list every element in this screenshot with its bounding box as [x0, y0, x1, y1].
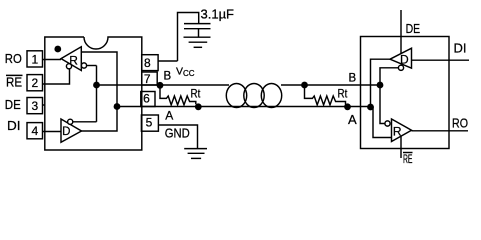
pin 7 box — [142, 72, 158, 85]
driver bubble (right) — [398, 65, 403, 70]
wire A to R lower input (right) — [371, 107, 392, 138]
twisted pair loop 3 — [261, 84, 281, 108]
wire B to D bubble (right) — [380, 68, 398, 85]
receiver input bubble (right) — [385, 121, 390, 126]
node A inside IC — [114, 103, 121, 110]
svg-text:DE: DE — [406, 21, 421, 36]
node B (right block) — [377, 82, 384, 89]
svg-text:Rt: Rt — [191, 89, 201, 101]
pin-1 marker dot — [54, 46, 61, 53]
receiver input bubble — [81, 63, 86, 68]
node A (right Rt) — [344, 103, 351, 110]
wire pin8 to Vcc riser — [158, 60, 177, 62]
node A (right block) — [367, 104, 374, 111]
wire D output to A (right) — [371, 59, 391, 107]
wire B vertical inside IC — [96, 66, 98, 122]
wire RO line — [412, 130, 469, 132]
wire DE (right) — [400, 10, 402, 64]
svg-text:A: A — [348, 112, 357, 127]
svg-text:DE: DE — [5, 98, 21, 112]
svg-text:RE: RE — [6, 76, 22, 90]
svg-text:7: 7 — [144, 72, 151, 86]
IC U1 body with notch — [45, 37, 142, 150]
wire RE (right) — [400, 136, 402, 158]
node B (right Rt) — [301, 82, 308, 89]
transceiver U2 body — [361, 37, 450, 149]
wire capacitor to ground — [198, 29, 200, 38]
node B (left) — [157, 82, 164, 89]
svg-text:2: 2 — [31, 76, 38, 90]
pin 6 box — [141, 92, 155, 107]
wire A line — [117, 106, 371, 108]
ground (top) — [184, 36, 211, 38]
wire D bubble to B — [73, 121, 97, 123]
node B inside IC — [93, 82, 100, 89]
svg-text:6: 6 — [143, 92, 150, 106]
wire DI line — [412, 59, 470, 61]
capacitor C1 3.1uF — [184, 23, 211, 25]
pin 3 box — [27, 98, 43, 114]
svg-text:8: 8 — [144, 56, 151, 70]
svg-text:3: 3 — [31, 99, 38, 113]
svg-text:D: D — [62, 126, 70, 138]
driver D (left IC) — [61, 119, 82, 142]
wire pin5 to ground — [158, 125, 197, 149]
svg-text:4: 4 — [31, 124, 38, 138]
svg-text:Rt: Rt — [338, 89, 348, 101]
svg-text:RO: RO — [452, 116, 468, 131]
svg-text:DI: DI — [7, 119, 21, 133]
wire B line right of loops — [281, 84, 380, 86]
ground (bottom left) — [184, 148, 207, 150]
pin 4 box — [27, 123, 43, 139]
wire B down to R bubble (right) — [380, 85, 385, 124]
pin 8 box — [142, 55, 158, 71]
wire pin1 to receiver output — [43, 59, 62, 61]
svg-text:GND: GND — [165, 126, 190, 141]
svg-text:RE: RE — [403, 154, 413, 166]
pin 1 box — [27, 51, 43, 67]
resistor Rt (right) — [305, 85, 346, 105]
resistor Rt (left) — [160, 85, 196, 105]
wire pin3 DE path — [43, 104, 46, 106]
driver inverted output bubble — [68, 119, 73, 124]
driver D (right) — [390, 48, 412, 68]
svg-text:3.1µF: 3.1µF — [201, 7, 235, 22]
svg-text:RO: RO — [5, 52, 22, 66]
svg-text:D: D — [400, 52, 409, 66]
wire pin2 to RE enable — [43, 69, 70, 84]
svg-text:B: B — [349, 72, 357, 84]
wire Vcc riser to capacitor — [178, 13, 199, 62]
receiver R (right) — [392, 119, 412, 142]
wire pin4 to driver input — [43, 131, 62, 133]
svg-text:1: 1 — [31, 52, 38, 66]
node A (left Rt) — [195, 103, 202, 110]
svg-text:DI: DI — [454, 41, 467, 56]
wire R inverting input to B — [87, 65, 97, 67]
receiver R (left IC) — [61, 47, 81, 71]
twisted pair loop 2 — [244, 84, 264, 108]
wire B line — [97, 84, 230, 86]
svg-text:A: A — [165, 109, 173, 123]
pin 2 box — [27, 75, 43, 91]
pin 5 box — [141, 115, 158, 131]
wire R top input / A vertical / D output — [81, 52, 117, 131]
svg-text:B: B — [164, 70, 172, 82]
receiver enable bubble — [66, 64, 71, 69]
svg-text:5: 5 — [146, 116, 153, 130]
twisted pair loop 1 — [226, 84, 246, 108]
